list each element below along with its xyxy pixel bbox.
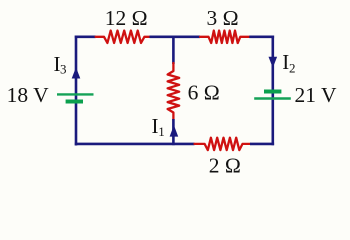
battery B2 21V short plate: [264, 90, 281, 94]
current arrow I3 (up): [72, 67, 81, 78]
wire bottom-right segment (R2 to node E): [250, 143, 274, 146]
battery B2 21V long plate: [254, 97, 291, 99]
wire right branch: [271, 36, 274, 146]
wire top-right segment (R3 to node C): [249, 35, 274, 38]
svg-text:21 V: 21 V: [295, 83, 337, 107]
svg-text:18 V: 18 V: [7, 83, 49, 107]
resistor R12 12 ohm: [96, 31, 150, 43]
wire top-middle segment (R12 to node B): [150, 35, 201, 38]
svg-text:6 Ω: 6 Ω: [188, 80, 220, 104]
svg-text:1: 1: [158, 124, 165, 139]
svg-text:3: 3: [60, 62, 67, 77]
resistor R2 2 ohm: [195, 138, 251, 150]
svg-text:2: 2: [289, 60, 296, 75]
svg-text:12 Ω: 12 Ω: [105, 6, 148, 30]
svg-text:3 Ω: 3 Ω: [207, 6, 239, 30]
current arrow I1 (up): [170, 125, 179, 136]
wire left branch: [75, 36, 78, 146]
wire middle branch upper (node B to R6): [172, 37, 175, 64]
resistor R3 3 ohm: [200, 31, 249, 43]
wire middle branch lower (R6 to bottom wire): [172, 119, 175, 145]
resistor R6 6 ohm: [168, 63, 180, 120]
wire bottom-left segment (node D to R2): [75, 143, 195, 146]
wire top-left segment (node A to R12): [75, 35, 96, 38]
battery B1 18V long plate: [57, 93, 94, 95]
battery B1 18V short plate: [66, 100, 83, 104]
svg-text:2 Ω: 2 Ω: [209, 153, 241, 177]
current arrow I2 (down): [269, 57, 278, 68]
